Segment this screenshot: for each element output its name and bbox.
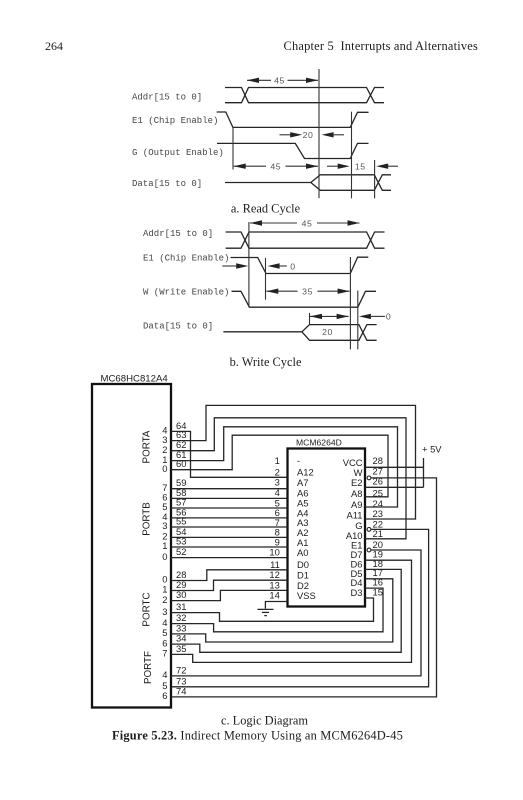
pin bubble E1 pin 20 xyxy=(367,548,371,552)
port label PORTF xyxy=(143,651,154,684)
svg-text:A8: A8 xyxy=(351,488,362,499)
microcontroller U1 MC68HC812A4 body xyxy=(92,374,171,708)
wire PC6 pin34 to D6 pin18 xyxy=(171,569,401,652)
caption a. Read Cycle xyxy=(231,202,301,216)
svg-text:28: 28 xyxy=(373,455,383,466)
node extension line W rise (write) xyxy=(357,291,359,350)
U1 PORTF pin numbers 72-74 xyxy=(176,664,186,696)
svg-text:D0: D0 xyxy=(297,559,309,570)
node extension line address valid (write) xyxy=(248,222,250,307)
wire E2 pin26 to +5V xyxy=(365,486,424,488)
svg-text:14: 14 xyxy=(269,590,279,601)
svg-text:PORTF: PORTF xyxy=(143,651,154,684)
wire PC1 pin29 to D1 pin12 xyxy=(171,580,288,590)
svg-text:20: 20 xyxy=(303,130,314,140)
pin bubble W pin 27 xyxy=(367,476,371,480)
wire W waveform (write) xyxy=(232,291,377,307)
svg-text:Data[15 to 0]: Data[15 to 0] xyxy=(132,179,202,189)
svg-text:Addr[15 to 0]: Addr[15 to 0] xyxy=(143,229,213,239)
svg-text:MC68HC812A4: MC68HC812A4 xyxy=(101,374,169,385)
dimension 15 data hold (read) xyxy=(327,162,398,172)
U1 PORTB bit numbers xyxy=(162,482,167,562)
node Addr[15 to 0] label (read) xyxy=(132,93,202,103)
wire PA1 pin61 to A9 pin24 xyxy=(171,427,398,507)
wire PC5 pin33 to D5 pin17 xyxy=(171,579,393,642)
svg-text:20: 20 xyxy=(322,327,333,337)
U2 left pin names xyxy=(297,455,316,601)
node reference line second (read) xyxy=(351,112,353,199)
svg-text:10: 10 xyxy=(269,547,279,558)
wire PC2 pin30 to D2 pin13 xyxy=(171,590,288,600)
svg-text:23: 23 xyxy=(373,508,383,519)
svg-text:W (Write Enable): W (Write Enable) xyxy=(143,287,229,297)
svg-text:A0: A0 xyxy=(297,547,308,558)
wire E1 waveform (write) xyxy=(231,257,369,273)
svg-text:1: 1 xyxy=(275,455,280,466)
svg-text:7: 7 xyxy=(162,648,167,659)
wire PB4 pin56 to A4 pin6 xyxy=(171,517,288,519)
svg-text:45: 45 xyxy=(274,76,285,86)
wire Addr bus waveform (write) xyxy=(226,232,385,248)
svg-text:60: 60 xyxy=(176,458,186,469)
wire PF6 pin74 to W pin27 xyxy=(171,478,437,697)
svg-text:52: 52 xyxy=(176,546,186,557)
U1 PORTB pin numbers 59-52 xyxy=(176,477,186,557)
wire PB2 pin54 to A2 pin8 xyxy=(171,536,288,538)
ground xyxy=(257,609,273,615)
svg-text:A9: A9 xyxy=(351,499,362,510)
dimension 45 address to write (write top) xyxy=(250,218,360,228)
U2 right pin names xyxy=(343,457,363,598)
node +5V supply xyxy=(422,444,442,488)
svg-text:a. Read Cycle: a. Read Cycle xyxy=(231,202,301,216)
wire PC4 pin32 to D4 pin16 xyxy=(171,588,383,632)
U2 right pin numbers 28-15 xyxy=(373,455,383,597)
dimension data setup double arrow (write) xyxy=(310,314,349,319)
svg-text:15: 15 xyxy=(355,162,366,172)
svg-text:E1 (Chip Enable): E1 (Chip Enable) xyxy=(132,116,218,126)
wire E1 waveform (read) xyxy=(217,112,369,127)
svg-text:+ 5V: + 5V xyxy=(422,444,442,455)
U1 PORTC bit numbers xyxy=(162,574,167,659)
wire PA2 pin62 to A10 pin21 xyxy=(171,418,406,539)
svg-text:72: 72 xyxy=(176,664,186,675)
dimension 45 address access (read top) xyxy=(247,76,318,86)
wire Data bus waveform (write) xyxy=(223,325,376,341)
svg-text:11: 11 xyxy=(270,559,280,570)
wire Addr bus waveform (read) xyxy=(225,88,384,103)
svg-text:PORTA: PORTA xyxy=(142,430,153,463)
svg-text:3: 3 xyxy=(162,606,167,617)
node extension line E1 rise (write) xyxy=(349,257,351,349)
node E1 (Chip Enable) label (write) xyxy=(143,253,229,263)
svg-text:D3: D3 xyxy=(351,587,363,598)
page header right: chapter title xyxy=(284,39,478,53)
svg-text:PORTC: PORTC xyxy=(142,592,153,626)
svg-text:G: G xyxy=(355,520,362,531)
svg-text:31: 31 xyxy=(176,601,186,612)
wire PA0 pin60 to A8 pin25 xyxy=(171,435,388,497)
node Addr[15 to 0] label (write) xyxy=(143,229,213,239)
svg-text:6: 6 xyxy=(162,690,167,701)
wire PB7 pin59 to A7 pin3 xyxy=(171,488,288,490)
port label PORTA xyxy=(142,430,153,463)
wire PF5 pin73 to G pin22 xyxy=(171,529,429,686)
value label 20 data setup (write) xyxy=(322,327,333,337)
node extension line E1 fall (write) xyxy=(265,258,267,300)
svg-text:Figure 5.23. Indirect Memory U: Figure 5.23. Indirect Memory Using an MC… xyxy=(112,729,403,743)
svg-text:0: 0 xyxy=(386,312,391,322)
svg-text:G (Output Enable): G (Output Enable) xyxy=(132,148,224,158)
node Data[15 to 0] label (read) xyxy=(132,179,202,189)
dimension 20 output-enable time (read) xyxy=(280,130,345,140)
svg-text:A7: A7 xyxy=(297,477,308,488)
U1 PORTA bit numbers xyxy=(162,425,167,474)
dimension 0 address to E1 (write) xyxy=(222,261,295,271)
svg-text:264: 264 xyxy=(45,39,63,53)
svg-text:VSS: VSS xyxy=(297,590,316,601)
wire PA3 pin63 to A11 pin23 xyxy=(171,405,416,519)
svg-text:3: 3 xyxy=(162,520,167,531)
svg-text:45: 45 xyxy=(270,162,281,172)
svg-text:Addr[15 to 0]: Addr[15 to 0] xyxy=(132,93,202,103)
svg-text:3: 3 xyxy=(275,477,280,488)
wire PB3 pin55 to A3 pin7 xyxy=(171,526,288,528)
svg-text:A12: A12 xyxy=(297,467,314,478)
svg-text:0: 0 xyxy=(162,551,167,562)
svg-text:b. Write Cycle: b. Write Cycle xyxy=(230,355,302,369)
node G (Output Enable) label (read) xyxy=(132,148,224,158)
wire PC3 pin31 to D3 pin15 xyxy=(171,598,374,621)
port label PORTC xyxy=(142,592,153,626)
node extension stub data valid (write) xyxy=(309,313,311,325)
node Data[15 to 0] label (write) xyxy=(143,322,213,332)
U1 PORTC pin numbers 28-35 xyxy=(176,569,186,654)
pin bubble G pin 22 xyxy=(367,528,371,532)
wire PA4 pin64 to A12 pin2 xyxy=(171,431,288,477)
wire PB5 pin57 to A5 pin5 xyxy=(171,507,288,509)
wire PB6 pin58 to A6 pin4 xyxy=(171,497,288,499)
wire Data bus waveform (read) xyxy=(225,175,391,191)
wire G waveform (read) xyxy=(217,143,369,158)
svg-text:c. Logic Diagram: c. Logic Diagram xyxy=(221,714,308,728)
svg-text:55: 55 xyxy=(176,516,186,527)
node reference line main (read) xyxy=(318,69,320,198)
memory U2 MCM6264D body xyxy=(288,438,366,607)
svg-text:E1 (Chip Enable): E1 (Chip Enable) xyxy=(143,253,229,263)
node W (Write Enable) label (write) xyxy=(143,287,229,297)
svg-text:PORTB: PORTB xyxy=(142,502,153,536)
U2 left pin numbers 1-14 xyxy=(269,455,279,601)
caption b. Write Cycle xyxy=(230,355,302,369)
svg-text:45: 45 xyxy=(302,218,313,228)
node extension line E1 fall (read) xyxy=(232,127,234,169)
wire PF4 pin72 to E1 pin20 xyxy=(171,550,421,676)
U1 PORTA pin numbers 64-60 xyxy=(176,420,186,469)
svg-text:0: 0 xyxy=(162,463,167,474)
svg-text:Data[15 to 0]: Data[15 to 0] xyxy=(143,322,213,332)
dimension 35 write pulse width xyxy=(266,287,349,297)
caption Figure 5.23 xyxy=(112,729,403,743)
dimension 45 chip-enable access (read lower) xyxy=(234,162,318,172)
svg-text:4: 4 xyxy=(162,669,167,680)
wire VSS pin14 to ground xyxy=(265,602,287,609)
page header left: page number xyxy=(45,39,63,53)
svg-text:MCM6264D: MCM6264D xyxy=(296,438,342,448)
svg-text:E2: E2 xyxy=(351,477,362,488)
svg-text:-: - xyxy=(297,455,300,466)
wire PB1 pin53 to A1 pin9 xyxy=(171,546,288,548)
svg-text:2: 2 xyxy=(162,594,167,605)
svg-text:Chapter 5 Interrupts and Alte: Chapter 5 Interrupts and Alternatives xyxy=(284,39,478,53)
svg-text:35: 35 xyxy=(302,287,313,297)
node E1 (Chip Enable) label (read) xyxy=(132,116,218,126)
wire PB0 pin52 to A0 pin10 xyxy=(171,557,288,559)
dimension 0 data hold (write) xyxy=(359,312,391,322)
node reference line third (read) xyxy=(374,160,376,198)
wire PC7 pin35 to D7 pin19 xyxy=(171,560,412,662)
U1 PORTF bit numbers xyxy=(162,669,167,701)
svg-text:0: 0 xyxy=(290,261,295,271)
caption c. Logic Diagram xyxy=(221,714,308,728)
port label PORTB xyxy=(142,502,153,536)
wire VCC pin28 to +5V xyxy=(365,466,424,468)
svg-text:1: 1 xyxy=(162,540,167,551)
wire PC0 pin28 to D0 pin11 xyxy=(171,570,288,581)
